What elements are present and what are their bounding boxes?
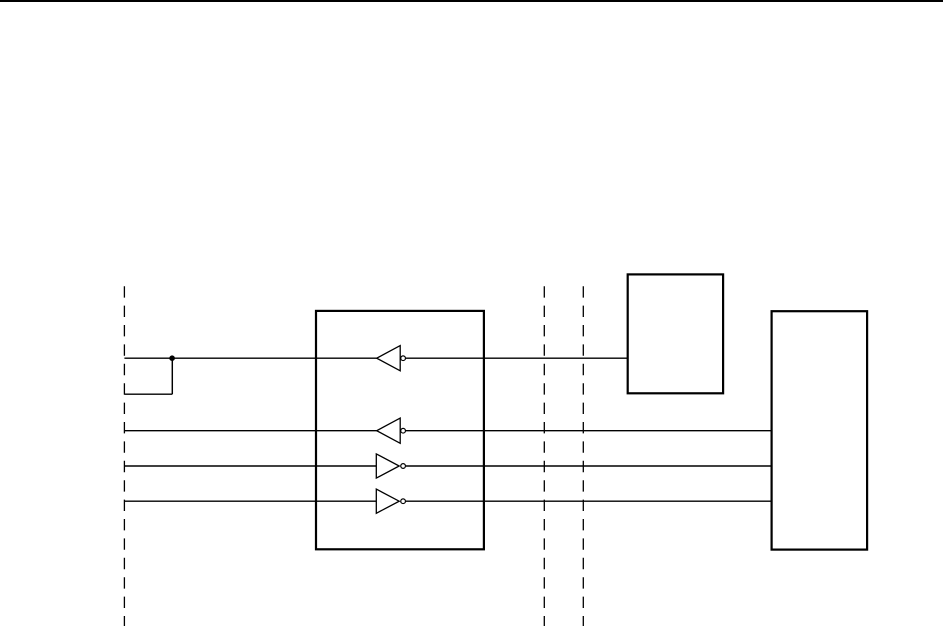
wire line2 right segment [406, 430, 772, 432]
dashed boundary line left [123, 286, 125, 626]
wire stub horizontal [124, 393, 172, 395]
inverter G1 (left-pointing) [377, 346, 406, 371]
wire line1 right segment [406, 357, 628, 359]
wire line1 left segment [124, 357, 376, 359]
small box top right [628, 274, 723, 393]
dashed boundary line middle A [543, 286, 545, 626]
wire line4 right segment [406, 500, 772, 502]
inverter G2 (left-pointing) [377, 418, 406, 443]
top rule bar [0, 0, 943, 2]
wire stub vertical [171, 358, 173, 394]
buffer block box U1 [316, 311, 484, 549]
large box right [772, 311, 868, 549]
wire line3 right segment [406, 465, 772, 467]
inverter G4 (right-pointing) [376, 489, 405, 513]
dashed boundary line middle B [582, 286, 584, 626]
inverter G3 (right-pointing) [376, 454, 405, 478]
wire line2 left segment [124, 430, 376, 432]
junction node dot [169, 355, 175, 361]
wire line4 left segment [124, 500, 376, 502]
wire line3 left segment [124, 465, 376, 467]
